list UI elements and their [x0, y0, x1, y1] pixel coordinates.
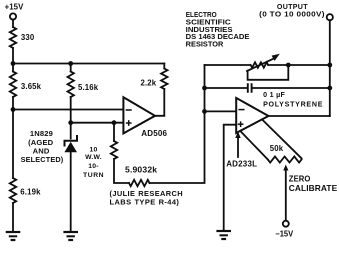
svg-text:5.16k: 5.16k	[78, 83, 99, 92]
node: divider tap	[11, 107, 16, 112]
node: top bus / 5.16k junction	[68, 61, 73, 66]
wire	[150, 65, 205, 183]
svg-text:TURN: TURN	[83, 172, 104, 179]
wire	[12, 19, 14, 27]
svg-text:10-: 10-	[88, 163, 98, 170]
svg-text:CALIBRATE: CALIBRATE	[289, 184, 338, 193]
wire	[12, 97, 14, 110]
svg-text:1N829: 1N829	[30, 129, 53, 138]
svg-text:10: 10	[90, 146, 98, 153]
svg-text:RESISTOR: RESISTOR	[186, 39, 224, 48]
wire	[205, 64, 251, 66]
svg-text:+15V: +15V	[5, 3, 25, 12]
ground	[65, 231, 77, 233]
svg-text:3.65k: 3.65k	[21, 82, 42, 91]
resistor 5.16k	[68, 72, 74, 98]
svg-text:0 1 µF: 0 1 µF	[263, 91, 285, 99]
svg-text:ZERO: ZERO	[289, 175, 311, 184]
svg-text:6.19k: 6.19k	[20, 187, 41, 196]
wire: to U2 inverting input	[205, 110, 237, 112]
wire	[12, 110, 14, 179]
node	[327, 86, 332, 91]
variable resistor: ESI DS1463 decade	[251, 62, 269, 67]
svg-text:(0 TO 10 0000V): (0 TO 10 0000V)	[259, 10, 325, 18]
+15V terminal	[10, 13, 16, 19]
wire	[329, 20, 331, 116]
wire: tap to inverting input	[13, 109, 123, 111]
wire: +input to ground	[224, 125, 237, 231]
resistor 6.19k	[10, 178, 16, 203]
svg-text:50k: 50k	[270, 144, 284, 153]
resistor 3.65k	[10, 72, 16, 98]
wire	[12, 203, 14, 232]
ground	[218, 230, 230, 232]
op-amp U1 AD506	[123, 97, 155, 133]
wire top bus	[13, 63, 164, 65]
svg-text:330: 330	[21, 33, 35, 42]
wiper arrow	[247, 58, 275, 71]
wire	[12, 64, 14, 72]
svg-text:LABS TYPE R-44): LABS TYPE R-44)	[110, 198, 180, 207]
potentiometer 50k	[268, 157, 302, 163]
svg-text:AD506: AD506	[141, 129, 167, 138]
output terminal	[327, 14, 333, 20]
svg-text:W.W.: W.W.	[85, 154, 102, 161]
resistor 10 W.W. 10-turn	[111, 141, 117, 159]
wire	[113, 123, 115, 141]
wiper arrow	[285, 169, 287, 221]
svg-text:SELECTED): SELECTED)	[21, 155, 64, 164]
wire	[163, 64, 165, 69]
svg-text:5.9032k: 5.9032k	[125, 166, 158, 175]
wire: offset pin 2	[262, 119, 302, 158]
node: inverting input junction	[202, 109, 207, 114]
wire	[70, 152, 72, 232]
wire: zener node to noninverting input	[71, 122, 124, 124]
wire: U2 output	[269, 115, 330, 117]
label arrow AD233L	[237, 138, 239, 158]
wire: wiper return	[248, 65, 289, 80]
resistor 330	[10, 27, 16, 48]
wire	[12, 48, 14, 64]
svg-text:POLYSTYRENE: POLYSTYRENE	[263, 101, 323, 109]
ground	[7, 231, 19, 233]
svg-text:AD233L: AD233L	[226, 159, 257, 168]
svg-text:(JULIE RESEARCH: (JULIE RESEARCH	[110, 189, 184, 198]
node: zener / +input junction	[68, 120, 73, 125]
wire	[70, 64, 72, 72]
wire	[205, 87, 248, 89]
zener diode 1N829	[65, 136, 78, 146]
wire: offset pin 1	[240, 131, 268, 160]
node	[286, 63, 291, 68]
svg-text:2.2k: 2.2k	[141, 79, 157, 88]
op-amp U2 AD233L	[236, 98, 268, 133]
resistor 5.9032k	[129, 180, 150, 186]
node: cap line junction	[202, 86, 207, 91]
node: +input / 10ohm junction	[112, 120, 117, 125]
-15V terminal	[283, 221, 289, 227]
svg-text:−15V: −15V	[275, 229, 294, 238]
wire	[70, 123, 72, 139]
node: top bus left junction	[11, 61, 16, 66]
wire	[114, 159, 129, 183]
wire	[70, 97, 72, 123]
capacitor 0.1uF polystyrene	[247, 84, 249, 92]
resistor 2.2k	[161, 69, 167, 90]
wire: U1 output	[155, 89, 164, 116]
node	[327, 63, 332, 68]
